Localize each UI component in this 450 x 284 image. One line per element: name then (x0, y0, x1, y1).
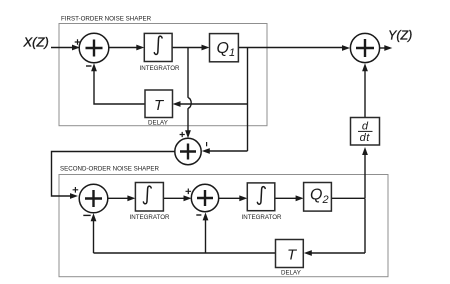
svg-text:SECOND-ORDER NOISE SHAPER: SECOND-ORDER NOISE SHAPER (60, 166, 160, 173)
svg-text:DELAY: DELAY (148, 120, 168, 127)
svg-text:dt: dt (360, 132, 371, 144)
svg-text:INTEGRATOR: INTEGRATOR (130, 214, 171, 221)
svg-text:X(Z): X(Z) (23, 35, 49, 50)
svg-text:Y(Z): Y(Z) (388, 29, 412, 43)
svg-text:INTEGRATOR: INTEGRATOR (140, 65, 181, 72)
svg-text:INTEGRATOR: INTEGRATOR (242, 214, 283, 221)
svg-text:d: d (362, 120, 369, 132)
svg-text:DELAY: DELAY (281, 270, 301, 277)
svg-text:FIRST-ORDER NOISE SHAPER: FIRST-ORDER NOISE SHAPER (61, 15, 152, 22)
